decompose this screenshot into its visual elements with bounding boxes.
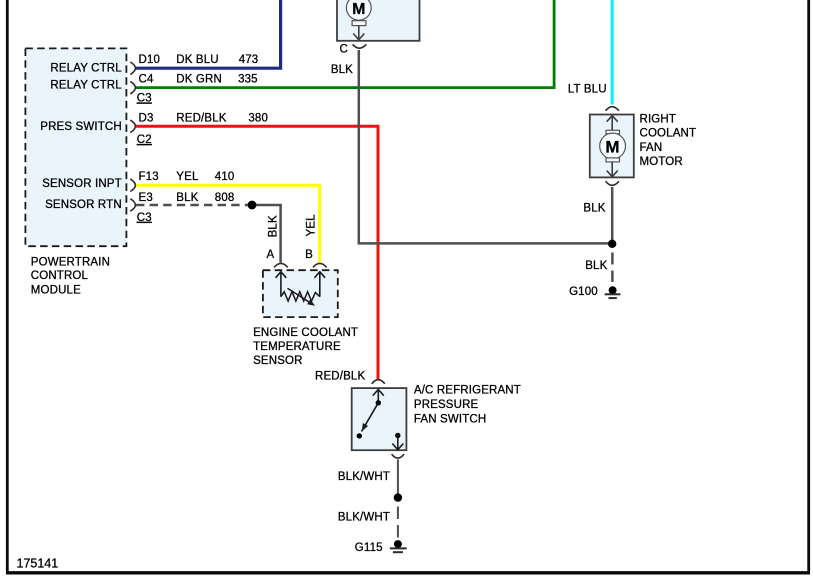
a/c refrigerant pressure fan switch box: [352, 388, 407, 450]
connector cup above switch: [372, 380, 385, 384]
svg-text:YEL: YEL: [176, 171, 199, 183]
ECT pin A arrow: [280, 273, 282, 297]
motor M circle (top motor): [346, 0, 371, 20]
motor brush (top motor): [352, 21, 366, 26]
wire BLK from fan motor bottom to junction: [611, 187, 614, 241]
svg-text:BLK/WHT: BLK/WHT: [338, 512, 390, 524]
svg-text:RED/BLK: RED/BLK: [176, 113, 226, 125]
ECT pin B arrow: [319, 273, 321, 297]
svg-text:MOTOR: MOTOR: [640, 156, 683, 168]
PCM pin connector arc F13: [130, 179, 135, 191]
page frame right border: [807, 0, 810, 573]
svg-text:B: B: [305, 249, 313, 261]
svg-text:CONTROL: CONTROL: [31, 270, 89, 282]
junction dot on BLK 808 wire: [248, 201, 257, 210]
wire DK BLU 473 from PCM D10: [136, 0, 281, 68]
svg-text:YEL: YEL: [306, 214, 318, 237]
svg-text:BLK: BLK: [585, 260, 607, 272]
svg-text:LT BLU: LT BLU: [568, 84, 607, 96]
connector cup pin B: [313, 263, 327, 267]
svg-text:DK GRN: DK GRN: [176, 73, 222, 85]
svg-text:410: 410: [215, 171, 235, 183]
switch output arrow down: [397, 436, 399, 449]
switch lower-left contact dot: [357, 433, 362, 438]
fan motor brush top: [606, 130, 620, 134]
svg-text:PRES SWITCH: PRES SWITCH: [40, 121, 122, 133]
svg-text:SENSOR INPT: SENSOR INPT: [42, 178, 122, 190]
svg-text:POWERTRAIN: POWERTRAIN: [31, 256, 110, 268]
wire BLK/WHT from switch to junction: [397, 460, 399, 495]
motor lead arrow down (top motor): [358, 26, 360, 39]
svg-text:ENGINE COOLANT: ENGINE COOLANT: [253, 327, 358, 339]
connector cup below switch: [392, 454, 405, 458]
wire BLK/WHT dashed to G115: [397, 507, 399, 538]
svg-text:G115: G115: [355, 542, 383, 554]
svg-text:COOLANT: COOLANT: [640, 128, 697, 140]
svg-text:BLK: BLK: [176, 192, 198, 204]
svg-text:DK BLU: DK BLU: [176, 54, 218, 66]
svg-text:E3: E3: [139, 192, 153, 204]
switch output contact dot: [395, 433, 400, 438]
svg-text:G100: G100: [569, 286, 598, 298]
PCM pin connector arc D3: [130, 120, 135, 132]
svg-text:RIGHT: RIGHT: [640, 114, 677, 126]
svg-text:FAN SWITCH: FAN SWITCH: [414, 414, 486, 426]
svg-text:380: 380: [248, 113, 268, 125]
switch blade with arrowhead: [362, 403, 379, 432]
switch input arrow: [377, 391, 379, 403]
svg-text:BLK: BLK: [583, 203, 605, 215]
junction node dot at G100 branch: [608, 240, 616, 248]
svg-text:C: C: [340, 44, 348, 56]
ground G115: [394, 540, 402, 548]
thermistor zigzag: [281, 292, 320, 301]
svg-text:C3: C3: [137, 93, 152, 105]
fan motor top arrow: [611, 117, 613, 130]
page frame bottom border: [6, 571, 810, 574]
svg-text:M: M: [352, 1, 365, 18]
svg-text:MODULE: MODULE: [31, 284, 81, 296]
wire BLK 808 from PCM E3 (dashed part): [136, 204, 251, 207]
connector cup pin A: [274, 263, 288, 267]
top coolant fan motor box (cut off at top): [337, 0, 420, 41]
svg-text:D10: D10: [139, 54, 161, 66]
connector cup below fan motor: [606, 181, 619, 185]
svg-text:175141: 175141: [17, 557, 59, 571]
fan motor brush bottom: [606, 158, 620, 162]
svg-text:SENSOR RTN: SENSOR RTN: [45, 199, 122, 211]
powertrain control module box: [25, 48, 126, 246]
wire LT BLU to right coolant fan motor: [611, 0, 614, 105]
wire YEL 410 from PCM F13 to ECT sensor pin B: [136, 185, 320, 262]
svg-text:RELAY CTRL: RELAY CTRL: [50, 63, 122, 75]
PCM pin connector arc C4: [130, 81, 135, 93]
svg-text:D3: D3: [139, 113, 154, 125]
svg-text:C3: C3: [137, 212, 152, 224]
wire DK GRN 335 from PCM C4: [136, 0, 554, 88]
connector cup above fan motor: [606, 107, 619, 111]
svg-text:M: M: [605, 137, 619, 156]
svg-text:473: 473: [239, 54, 259, 66]
svg-text:TEMPERATURE: TEMPERATURE: [253, 341, 341, 353]
svg-text:RED/BLK: RED/BLK: [315, 370, 365, 382]
PCM pin connector arc E3: [130, 199, 135, 211]
wire BLK 808 solid part to ECT sensor pin A: [252, 205, 281, 263]
svg-text:A: A: [266, 249, 274, 261]
junction dot BLK/WHT: [394, 493, 402, 501]
right coolant fan motor box: [590, 115, 634, 178]
svg-text:FAN: FAN: [640, 142, 663, 154]
thermistor arrow: [288, 288, 313, 304]
fan motor M circle: [600, 133, 626, 159]
svg-text:BLK: BLK: [331, 64, 353, 76]
engine coolant temperature sensor box: [263, 270, 338, 317]
svg-text:A/C REFRIGERANT: A/C REFRIGERANT: [414, 385, 521, 397]
svg-text:BLK: BLK: [267, 215, 279, 237]
svg-text:F13: F13: [139, 171, 159, 183]
svg-text:C4: C4: [139, 73, 154, 85]
page frame left border: [6, 0, 9, 573]
svg-text:808: 808: [215, 192, 235, 204]
wire RED/BLK 380 from PCM D3 to A/C pressure switch: [136, 126, 378, 380]
svg-text:C2: C2: [137, 134, 152, 146]
fan motor bottom arrow: [611, 162, 613, 176]
switch common contact dot: [376, 400, 381, 405]
svg-text:SENSOR: SENSOR: [253, 355, 302, 367]
svg-text:PRESSURE: PRESSURE: [414, 399, 479, 411]
wire BLK from top motor pin C down and right to G100 node: [359, 50, 610, 243]
wire BLK dashed to G100: [611, 253, 614, 283]
connector cup C below top motor: [353, 44, 367, 48]
ground G100: [609, 286, 617, 294]
svg-text:BLK/WHT: BLK/WHT: [338, 471, 390, 483]
svg-text:RELAY CTRL: RELAY CTRL: [50, 80, 122, 92]
svg-text:335: 335: [238, 73, 258, 85]
PCM pin connector arc D10: [130, 62, 135, 74]
